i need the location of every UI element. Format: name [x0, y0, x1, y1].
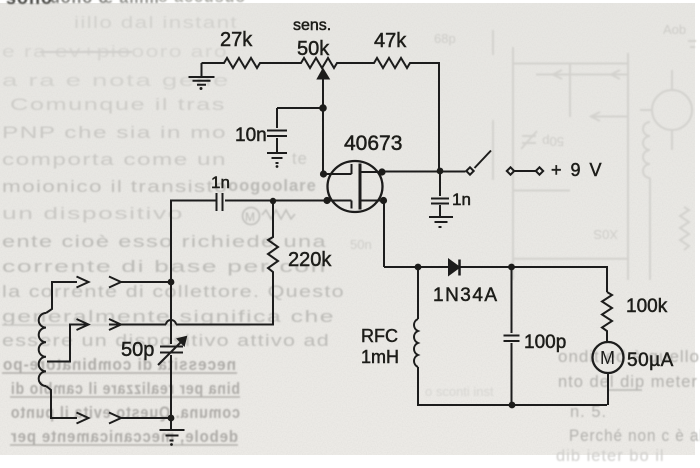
svg-text:e amm: e amm [104, 0, 160, 7]
svg-text:debole, meccanicamente per: debole, meccanicamente per [10, 428, 238, 446]
svg-text:nto del dip meter mostrato: nto del dip meter mostrato [558, 373, 700, 391]
svg-text:X0S: X0S [593, 227, 618, 242]
svg-text:sono: sono [6, 0, 53, 8]
svg-text:ente cioè esso richiede u: ente cioè esso richiede una [2, 233, 327, 251]
svg-text:100p: 100p [524, 332, 566, 353]
svg-text:te: te [292, 150, 308, 168]
svg-text:1n: 1n [452, 190, 471, 209]
svg-text:iillo dal instant: iillo dal instant [74, 14, 238, 32]
svg-text:50k: 50k [297, 38, 330, 60]
svg-text:68p: 68p [434, 31, 456, 46]
svg-text:RFC: RFC [361, 326, 398, 346]
svg-text:+ 9 V: + 9 V [551, 160, 604, 180]
svg-text:oogoolare: oogoolare [228, 177, 317, 195]
svg-text:M: M [600, 348, 615, 368]
svg-text:1n: 1n [211, 173, 230, 192]
svg-text:un dispositivo: un dispositivo [2, 205, 184, 223]
svg-text:generalmente significa c: generalmente significa che [2, 308, 335, 326]
svg-text:10n: 10n [235, 125, 267, 146]
svg-text:bina per realizzare il cambio: bina per realizzare il cambio di [10, 380, 240, 398]
svg-text:necessita di combinatore-po: necessita di combinatore-po [2, 356, 236, 374]
svg-text:Aob: Aob [663, 22, 686, 37]
svg-text:comporta come un: comporta come un [2, 151, 227, 169]
svg-text:50µA: 50µA [627, 350, 674, 371]
svg-text:sens.: sens. [293, 17, 331, 34]
svg-text:50n: 50n [350, 237, 372, 252]
svg-text:47k: 47k [374, 30, 407, 52]
svg-text:50p: 50p [121, 339, 154, 361]
svg-text:Comunque il tras: Comunque il tras [10, 96, 226, 114]
svg-text:M: M [245, 210, 256, 224]
svg-text:comuna. Questo evita il punto: comuna. Questo evita il punto [10, 404, 240, 422]
svg-text:moionico il transisto: moionico il transisto [2, 178, 228, 196]
svg-text:220k: 220k [288, 249, 332, 271]
svg-text:o sconti inst: o sconti inst [425, 384, 494, 399]
svg-text:50p: 50p [542, 134, 564, 149]
svg-text:27k: 27k [220, 29, 253, 51]
svg-text:dib ieter bo il: dib ieter bo il [556, 447, 665, 463]
svg-text:o accusuo: o accusuo [158, 0, 246, 6]
svg-text:PNP che sia in mo: PNP che sia in mo [2, 124, 227, 142]
svg-text:100k: 100k [626, 296, 668, 317]
svg-text:1mH: 1mH [361, 347, 399, 367]
svg-text:uono c: uono c [50, 0, 108, 7]
svg-text:40673: 40673 [344, 132, 402, 155]
svg-text:Perché non c è alcun: Perché non c è alcun [569, 427, 700, 445]
svg-text:1N34A: 1N34A [433, 285, 499, 306]
svg-text:la corrente di collettore. Que: la corrente di collettore. Questo [2, 283, 345, 301]
